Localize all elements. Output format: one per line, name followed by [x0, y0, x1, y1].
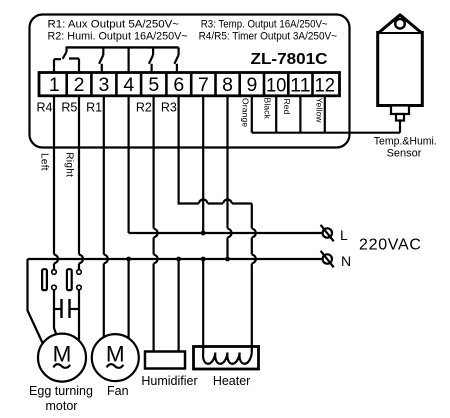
limit switch left (frame) [42, 269, 47, 290]
limit switch right bottom contact [77, 285, 82, 290]
svg-text:L: L [340, 227, 348, 243]
capacitor C (motor) left lead [54, 308, 62, 310]
sensor cable wire [399, 121, 401, 133]
sensor hanger hole [395, 19, 405, 29]
egg turning motor M1 circle [38, 334, 86, 382]
svg-text:Fan: Fan [107, 384, 129, 398]
svg-text:Temp.&Humi.: Temp.&Humi. [374, 135, 437, 147]
fan M2 tilde [107, 364, 124, 368]
limit switch left top contact [52, 270, 57, 275]
wire 7 terminal 7 to L line [202, 96, 204, 233]
hop wire5 over N bus [154, 255, 158, 264]
relay contact R1 (over terminal 3) [99, 47, 103, 72]
svg-text:R2: Humi. Output 16A/250V~: R2: Humi. Output 16A/250V~ [48, 31, 188, 43]
fan neutral drop [128, 259, 130, 338]
sensor bus wire [252, 132, 400, 134]
relay contact R2 (over terminal 5) [149, 47, 153, 72]
svg-text:3: 3 [98, 74, 109, 96]
svg-text:R5: R5 [61, 101, 77, 115]
svg-text:8: 8 [222, 74, 233, 96]
capacitor plate right [68, 299, 70, 318]
wire 4 terminal 4 to L line [128, 96, 130, 233]
svg-text:Sensor: Sensor [387, 147, 422, 159]
svg-text:M: M [53, 342, 72, 367]
svg-text:220VAC: 220VAC [359, 237, 422, 254]
svg-text:Humidifier: Humidifier [141, 374, 197, 388]
terminal L circle [323, 228, 332, 237]
svg-text:R2: R2 [136, 101, 152, 115]
svg-text:motor: motor [46, 399, 78, 413]
hop heater drop over N bus [252, 255, 256, 264]
svg-text:6: 6 [173, 74, 184, 96]
limit switch left bottom contact [52, 285, 57, 290]
terminal separators [67, 73, 313, 96]
svg-text:R3: Temp. Output 16A/250V~: R3: Temp. Output 16A/250V~ [201, 19, 328, 31]
svg-text:M: M [106, 342, 125, 367]
svg-text:5: 5 [148, 74, 159, 96]
hop wire3 over N bus [104, 255, 108, 264]
sensor connector step 2 [396, 114, 404, 121]
limit switch right top contact [77, 270, 82, 275]
svg-text:4: 4 [123, 74, 134, 96]
relay contact R3 (over terminal 6) [174, 47, 178, 72]
heater box [194, 347, 259, 370]
sensor hanger triangle [380, 15, 421, 32]
L line wire [129, 232, 323, 234]
hop wire2 over N bus [79, 255, 83, 264]
terminal N slash [321, 251, 334, 267]
hop wire5 over L line [154, 229, 158, 238]
junction dot heater left drop [201, 257, 206, 262]
wire 5 (R2) terminal 5 to humidifier [153, 96, 155, 352]
heater element coil [203, 347, 252, 364]
svg-text:Left: Left [38, 153, 49, 171]
hop wire6 horizontal over wire 8 [223, 200, 232, 204]
junction dot wire 7 on L [201, 231, 206, 236]
hop wire8 over L line [228, 229, 232, 238]
svg-text:1: 1 [49, 74, 60, 96]
svg-text:Black: Black [263, 98, 273, 120]
limit switch right (frame) [67, 269, 72, 290]
wire 1 (R4) down from terminal 1 [53, 96, 55, 270]
hop wire1 over N bus [54, 255, 58, 264]
svg-text:10: 10 [266, 74, 287, 96]
svg-text:Orange: Orange [241, 98, 251, 127]
hop heater drop over L line [252, 229, 256, 238]
N line wire [28, 258, 323, 260]
wire top bus [67, 46, 179, 48]
sensor body [378, 33, 423, 106]
wire 2 (R5) down from terminal 2 [78, 96, 80, 270]
wire terminal 4 to bus [128, 47, 130, 72]
terminal numbers 1-12 [49, 74, 335, 97]
svg-text:R1: Aux Output 5A/250V~: R1: Aux Output 5A/250V~ [48, 19, 180, 31]
svg-text:12: 12 [315, 74, 336, 96]
svg-text:Red: Red [282, 99, 292, 115]
wire right switch to motor [78, 290, 80, 340]
fan motor M2 circle [92, 334, 139, 381]
svg-text:R3: R3 [161, 101, 177, 115]
heater right drop wire [251, 204, 253, 347]
sensor wire terminal 11 (red) [299, 96, 301, 133]
junction dot fan drop [126, 257, 131, 262]
terminal strip outline [39, 73, 340, 96]
wire 8 terminal 8 to N line [226, 96, 228, 259]
svg-text:R4: R4 [37, 101, 53, 115]
svg-text:Yellow: Yellow [315, 98, 325, 124]
terminal L slash [321, 225, 334, 242]
svg-text:Heater: Heater [213, 374, 251, 388]
svg-text:Right: Right [64, 152, 75, 177]
motor M1 tilde [54, 364, 71, 368]
svg-text:Egg turning: Egg turning [29, 384, 93, 398]
capacitor plate left [60, 299, 62, 318]
svg-text:11: 11 [290, 74, 311, 96]
terminal N circle [323, 254, 332, 263]
sensor wire terminal 12 (yellow) [324, 96, 326, 133]
wire left switch to motor [54, 290, 57, 336]
controller box ZL-7801C outline [30, 15, 350, 148]
capacitor right lead [70, 308, 80, 310]
svg-text:2: 2 [74, 74, 85, 96]
heater left drop [202, 259, 204, 347]
svg-text:7: 7 [198, 74, 209, 96]
svg-text:ZL-7801C: ZL-7801C [251, 51, 328, 68]
wire 3 (R1) terminal 3 to fan [103, 96, 105, 337]
humidifier neutral drop [178, 259, 180, 352]
svg-text:N: N [341, 253, 351, 269]
svg-text:R1: R1 [86, 101, 102, 115]
junction dot wire 8 on N [225, 257, 230, 262]
svg-text:R4/R5: Timer Output 3A/250V~: R4/R5: Timer Output 3A/250V~ [199, 31, 337, 43]
sensor wire terminal 9 (orange) [251, 96, 253, 133]
junction dot humidifier drop [176, 257, 181, 262]
hop wire6 horizontal over wire 7 [199, 200, 208, 204]
wire 6 (R3) terminal 6 to heater right [179, 96, 252, 204]
sensor wire terminal 10 (black) [275, 96, 277, 133]
humidifier box [145, 352, 185, 369]
sensor connector step 1 [391, 106, 409, 115]
N bus left drop to motor [28, 259, 44, 345]
relay contact R4/R5 (SPDT over terminals 1-2) [54, 46, 79, 72]
svg-text:9: 9 [246, 74, 257, 96]
